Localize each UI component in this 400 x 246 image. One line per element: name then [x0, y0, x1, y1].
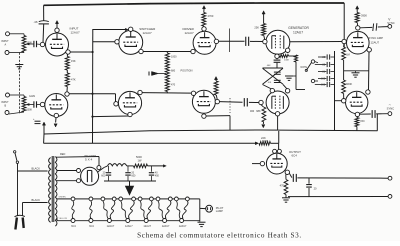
svg-text:470: 470 [280, 184, 285, 188]
svg-text:POSITION: POSITION [181, 69, 193, 72]
svg-text:12AU7: 12AU7 [162, 225, 170, 228]
svg-text:.005: .005 [320, 78, 325, 81]
svg-text:12AU7: 12AU7 [185, 31, 195, 35]
svg-text:12AU7: 12AU7 [143, 31, 153, 35]
svg-text:68K: 68K [256, 110, 261, 113]
svg-text:6C4: 6C4 [292, 154, 298, 158]
svg-text:.02: .02 [322, 64, 326, 67]
svg-text:RED: RED [60, 153, 65, 156]
svg-text:600: 600 [131, 175, 136, 178]
svg-text:1000: 1000 [171, 56, 177, 59]
svg-text:12AU7: 12AU7 [71, 30, 81, 34]
svg-text:1W: 1W [138, 158, 142, 162]
svg-text:1M: 1M [346, 54, 349, 57]
svg-text:12AU7: 12AU7 [371, 41, 380, 45]
svg-text:600: 600 [101, 175, 106, 178]
svg-text:Schema del commutatore elettro: Schema del commutatore elettronico Heath… [137, 232, 302, 240]
svg-text:GREEN: GREEN [59, 196, 67, 198]
svg-text:YELLOW: YELLOW [59, 218, 67, 220]
svg-text:GAIN: GAIN [29, 95, 35, 98]
svg-text:10W: 10W [262, 139, 268, 143]
svg-text:680: 680 [171, 70, 176, 73]
svg-text:12AU7: 12AU7 [143, 225, 151, 228]
svg-text:12AU7: 12AU7 [179, 225, 187, 228]
svg-text:BLACK: BLACK [32, 166, 41, 170]
svg-text:6C4: 6C4 [89, 225, 94, 228]
svg-text:25K: 25K [254, 26, 259, 30]
svg-text:500K: 500K [27, 109, 33, 112]
svg-text:∼: ∼ [388, 103, 391, 107]
svg-text:500K: 500K [27, 42, 33, 45]
svg-text:47K: 47K [71, 78, 76, 82]
svg-text:GENERATOR: GENERATOR [288, 26, 309, 30]
svg-text:.46: .46 [33, 20, 38, 24]
svg-text:450: 450 [155, 175, 160, 178]
svg-text:12AU7: 12AU7 [107, 225, 115, 228]
svg-text:BLACK: BLACK [32, 198, 41, 202]
svg-text:SYNC: SYNC [387, 21, 395, 25]
svg-text:100K: 100K [284, 59, 290, 61]
svg-text:460: 460 [250, 110, 255, 113]
svg-text:15K: 15K [71, 59, 76, 63]
svg-text:6C4: 6C4 [71, 225, 76, 228]
svg-text:SYNC: SYNC [387, 107, 395, 111]
svg-text:NOTE: NOTE [301, 66, 308, 69]
svg-text:SYNC AMP: SYNC AMP [369, 36, 384, 40]
svg-text:46K: 46K [267, 65, 271, 67]
svg-text:.002: .002 [320, 84, 325, 87]
svg-text:5 X 4: 5 X 4 [85, 157, 93, 161]
svg-text:12AU7: 12AU7 [125, 225, 133, 228]
svg-text:.01: .01 [322, 71, 326, 74]
svg-text:LAMP: LAMP [216, 209, 223, 213]
svg-text:150: 150 [360, 120, 365, 123]
svg-text:.05: .05 [322, 56, 326, 59]
svg-text:12AU7: 12AU7 [293, 31, 303, 35]
svg-text:560K: 560K [346, 83, 352, 86]
svg-text:470: 470 [171, 84, 176, 87]
svg-text:3900: 3900 [361, 14, 367, 18]
svg-text:4700: 4700 [208, 14, 214, 18]
